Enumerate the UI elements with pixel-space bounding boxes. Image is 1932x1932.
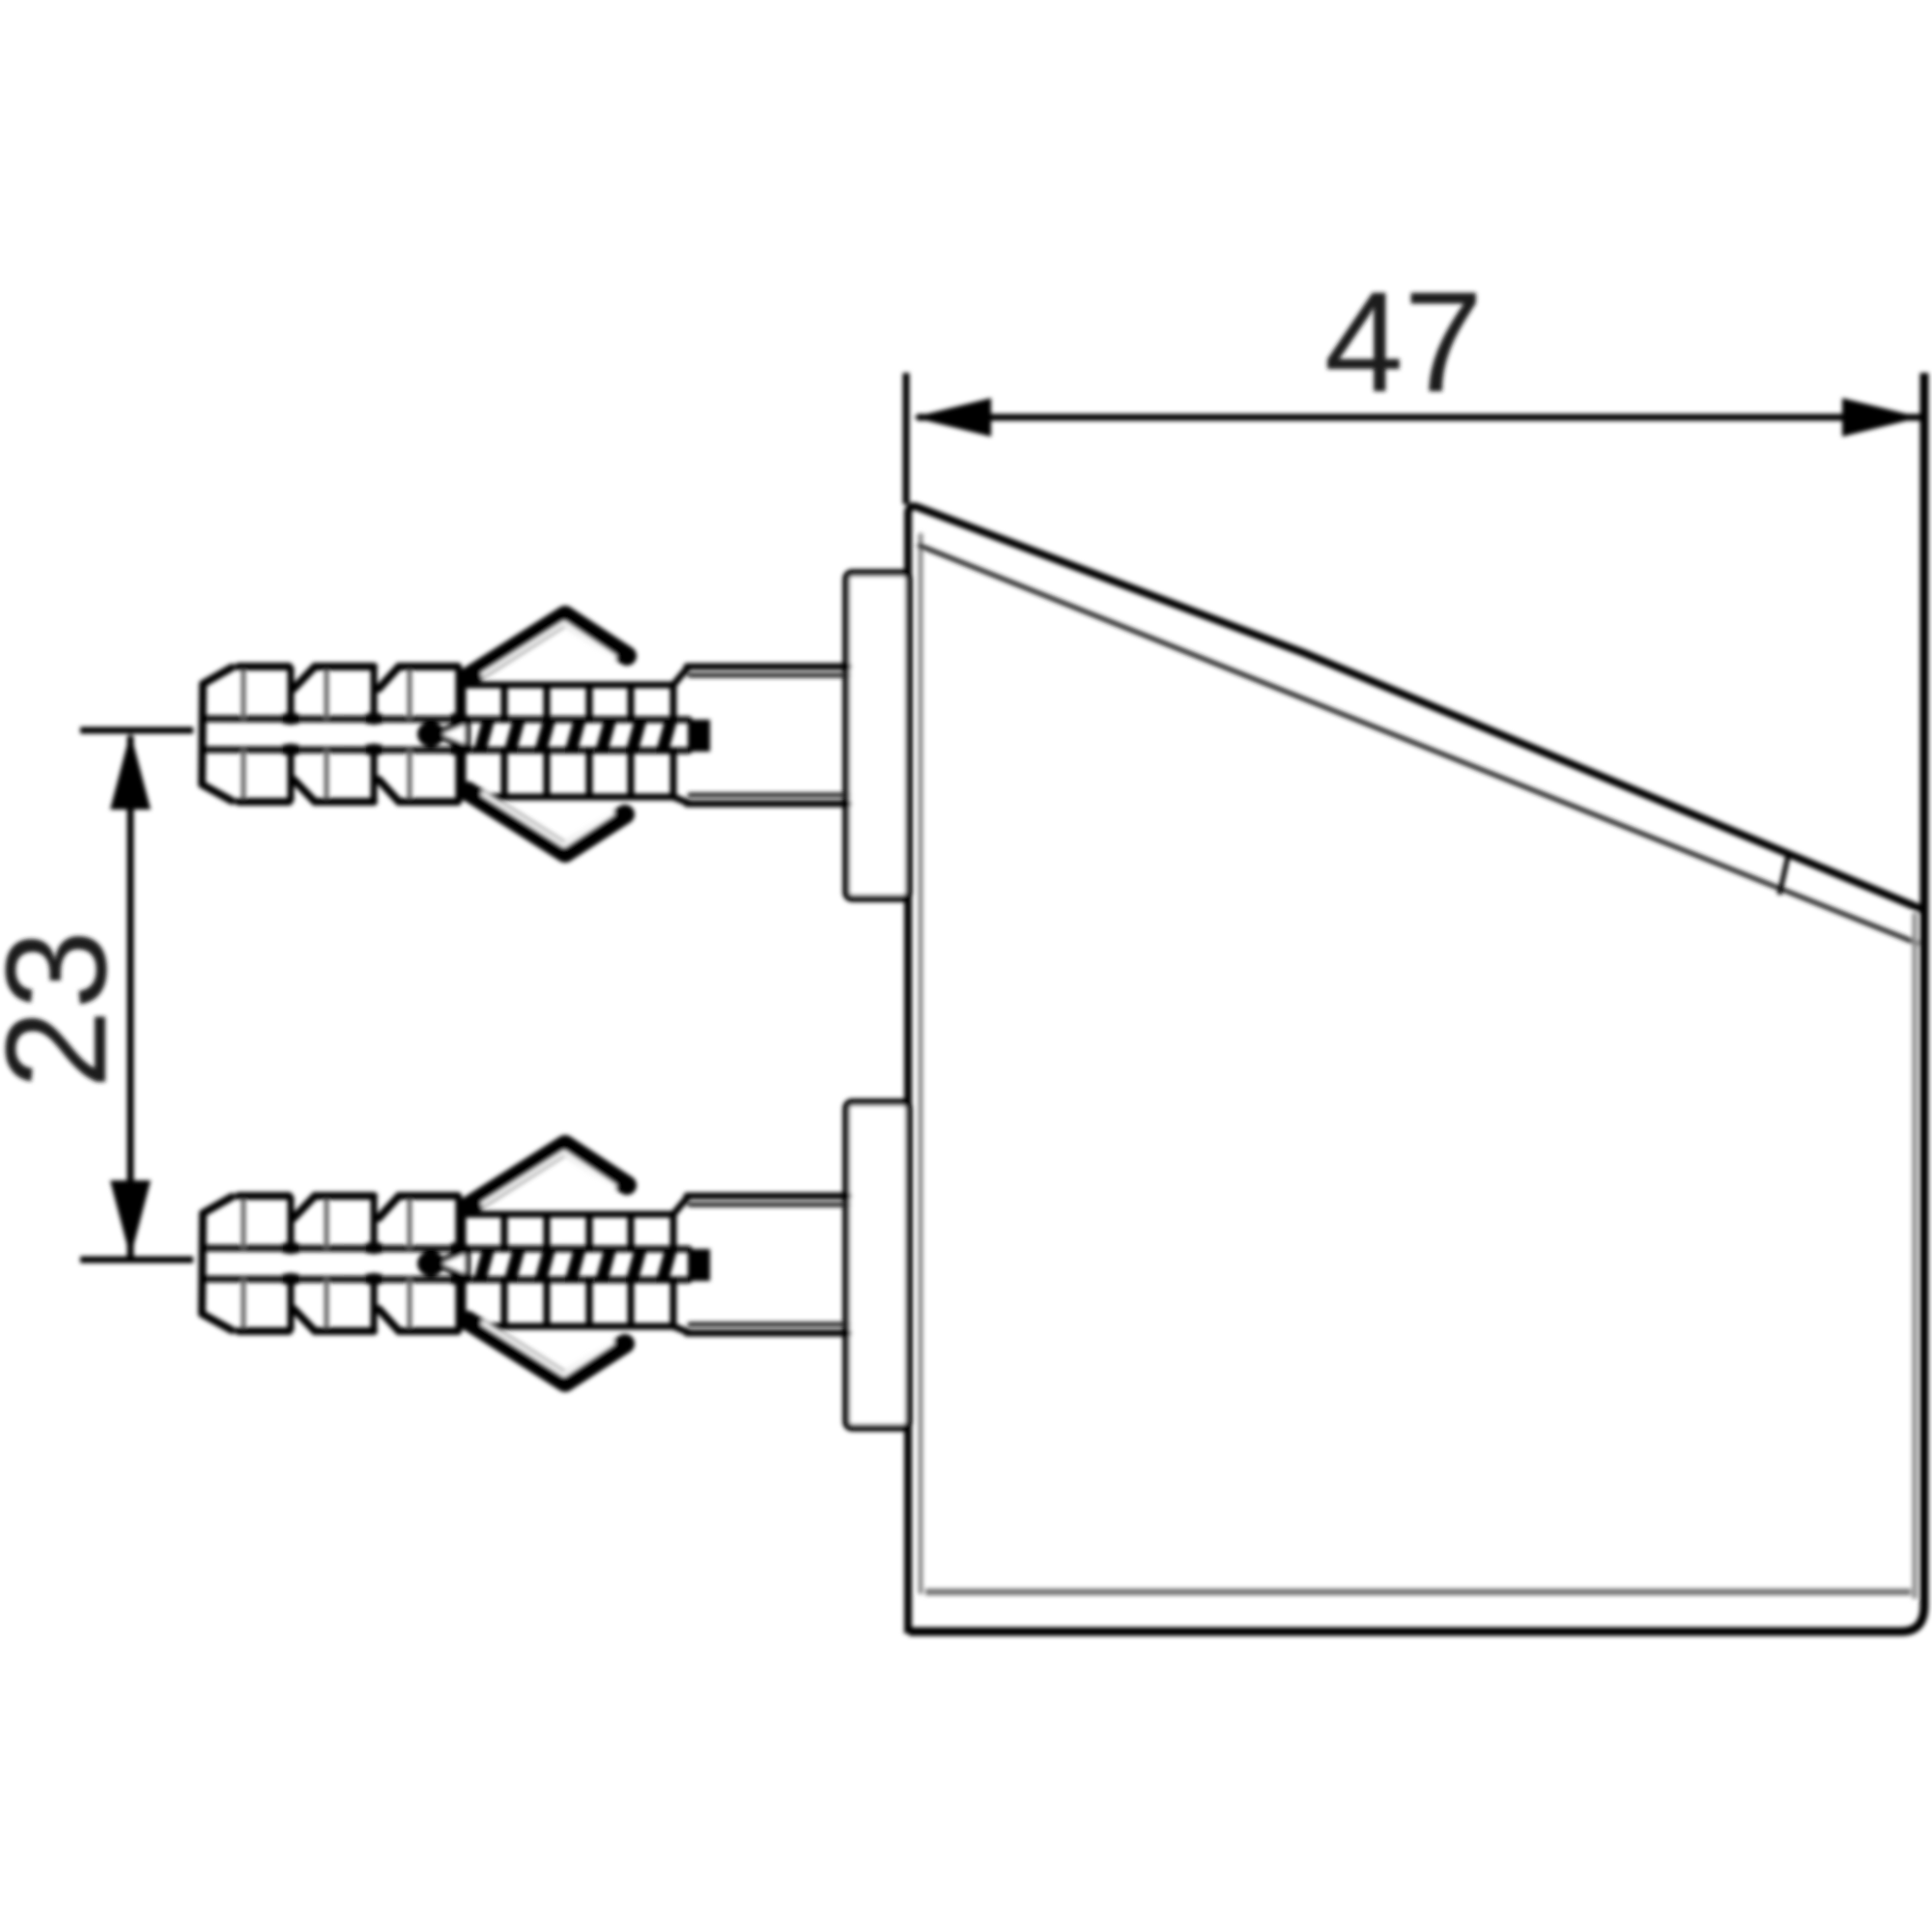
svg-text:47: 47 <box>1324 263 1484 422</box>
svg-text:23: 23 <box>0 930 136 1090</box>
